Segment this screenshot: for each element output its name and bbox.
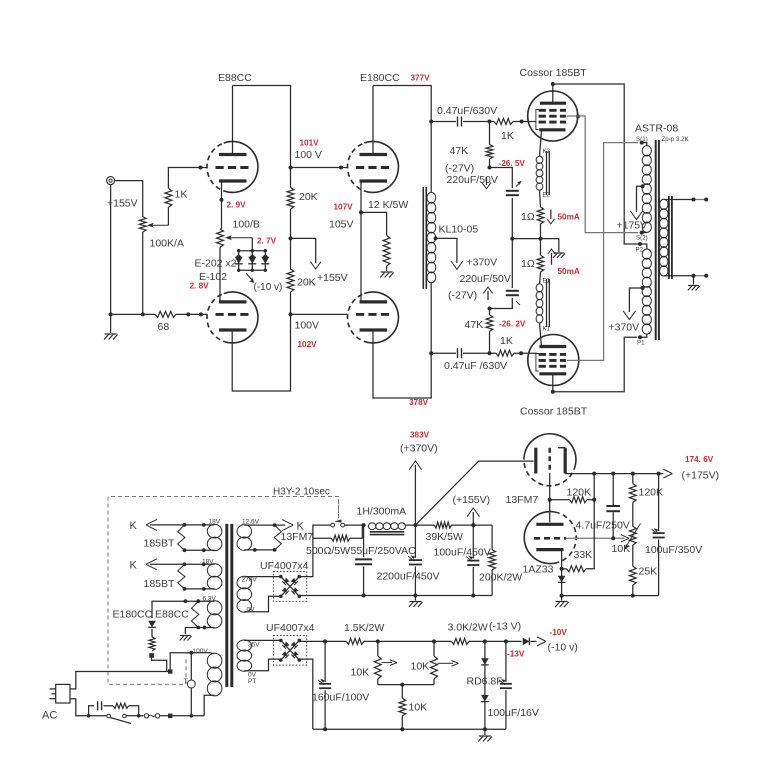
winding ASTR-08 primary upper — [642, 146, 651, 156]
node speaker + b — [704, 198, 708, 202]
pot1 wiper arrow — [382, 662, 393, 664]
arrowhead K heater 18V #2 — [146, 559, 157, 570]
grid rows V5 b — [539, 115, 566, 118]
node pot1 top — [376, 639, 380, 643]
grid rows V6 b — [539, 359, 566, 362]
wire V5 g2 to S2 (gray) — [567, 116, 638, 233]
winding heater 18V #1 — [207, 524, 222, 538]
svg-text:(-10 v): (-10 v) — [548, 642, 578, 654]
node rail 100uF350 — [657, 472, 661, 476]
wire AC live up to primary — [170, 653, 171, 670]
node zener rail bottom — [483, 727, 487, 731]
wire 120K-2 lead — [632, 474, 634, 484]
svg-text:107V: 107V — [334, 203, 354, 212]
bridge UF4007x4 B1 corner node — [279, 575, 283, 579]
bridge UF4007x4 B2 corner node — [298, 658, 302, 662]
resistor 33K — [567, 566, 587, 572]
wire T branch — [190, 653, 192, 716]
node heater 18V #2 b1 — [183, 587, 187, 591]
diode D3 E-202/E-102 — [261, 257, 269, 264]
bias bottom rail — [313, 728, 506, 730]
node snubber left — [87, 714, 91, 718]
node V1 plate / 20K top — [289, 166, 293, 170]
wire switch to fuse — [126, 715, 143, 717]
svg-text:12.6V: 12.6V — [242, 518, 260, 525]
psu right rail segment — [562, 595, 659, 597]
core K2 — [546, 151, 548, 195]
AC plug — [56, 684, 70, 703]
zener RD6.8F #2 — [481, 695, 489, 702]
node +370V tap — [641, 286, 645, 290]
node heater 18V #1 b1 — [183, 548, 187, 552]
node diode D1 bottom — [237, 269, 240, 272]
svg-text:500Ω/5W: 500Ω/5W — [306, 545, 350, 557]
svg-text:E2: E2 — [543, 193, 551, 199]
wire snubber branch — [89, 706, 94, 716]
wire V5 anode up — [552, 84, 554, 103]
node P1 terminal — [638, 335, 642, 339]
thermal fuse T circle — [187, 680, 195, 688]
wire pot2 leads — [433, 641, 435, 656]
resistor 47K lower — [486, 315, 493, 331]
wire relay to choke node — [345, 524, 364, 526]
annotation +370V arrow path — [629, 288, 642, 312]
relay armature — [334, 520, 342, 523]
wire 100uF16 branch — [505, 641, 507, 682]
twisted pair 6.3V — [192, 601, 199, 627]
node diode D2 bottom — [251, 269, 254, 272]
wire 220uF lower chain — [511, 239, 513, 288]
svg-text:PT: PT — [248, 678, 256, 685]
cathode V1 — [219, 179, 247, 182]
relay contact a — [331, 523, 335, 527]
anode V3 — [360, 153, 388, 156]
wire 220uF lower to 47K — [490, 298, 513, 309]
arrowhead K 12.6V — [282, 520, 293, 531]
wire pot bottom to ground bus — [142, 232, 144, 314]
wire 100uF450 branch — [472, 525, 474, 558]
svg-text:25K: 25K — [639, 566, 658, 578]
svg-text:10K: 10K — [409, 702, 428, 714]
wire fuse to primary — [160, 715, 205, 717]
wire tap +370V annotation — [436, 238, 457, 263]
ground 12K — [381, 271, 393, 273]
node V6 anode corner — [551, 390, 555, 394]
pot 10K #1 — [374, 656, 381, 679]
svg-text:RD6.8F: RD6.8F — [467, 676, 503, 688]
svg-text:377V: 377V — [411, 74, 431, 83]
annotation +175V arrowhead — [630, 211, 642, 220]
wire diode to arrow — [531, 640, 537, 642]
svg-text:35V: 35V — [248, 641, 260, 648]
wire V6 g2 to S1 (gray) — [567, 143, 638, 361]
node 6.3V t2 — [196, 599, 200, 603]
svg-text:-13V: -13V — [507, 650, 525, 659]
grid rows V5 a — [539, 109, 566, 112]
svg-text:20K: 20K — [299, 191, 318, 203]
wire V8 cathode down — [561, 550, 563, 596]
pots bottom bar — [378, 684, 434, 686]
bridge UF4007x4 B1 diagonal b — [281, 577, 300, 597]
grid V2 (dashed) — [216, 313, 250, 316]
grid V3 (dashed) — [356, 166, 390, 169]
node +155V psu — [471, 523, 475, 527]
wire 1.5K to 3K — [364, 640, 452, 642]
wire diode to resistor — [151, 629, 153, 637]
node 100V (V2 anode) — [289, 312, 293, 316]
bridge UF4007x4 B2 diode — [291, 642, 298, 649]
node S2 terminal — [640, 231, 644, 235]
wire anode V1 to top rail — [232, 86, 234, 155]
svg-text:174. 6V: 174. 6V — [685, 455, 714, 464]
wire 3K to diode — [469, 640, 522, 642]
bridge UF4007x4 B1 corner node — [298, 595, 302, 599]
node -27V upper — [488, 166, 492, 170]
wire choke to B+ node — [406, 524, 416, 526]
zener RD6.8F #1 — [481, 658, 489, 665]
wire wiper 100/B down to diode rail — [251, 238, 253, 251]
wire 47K lower leads — [489, 309, 491, 316]
annotation 50mA lower arrowhead — [548, 249, 555, 254]
node at V6 grid — [519, 351, 523, 355]
wire 55uF to 0V rail — [363, 567, 365, 596]
resistor 1.5K/2W — [346, 638, 364, 644]
input terminal J1 — [107, 177, 115, 185]
potentiometer 100K/A — [139, 217, 146, 232]
grid V1 (dashed) — [216, 166, 250, 169]
resistor 120K #2 — [629, 484, 636, 503]
svg-text:100V: 100V — [295, 320, 320, 332]
bridge UF4007x4 B2 corner node — [298, 639, 302, 643]
node 160uF rail — [323, 727, 327, 731]
tube V2 E88CC lower triode — [224, 292, 258, 343]
svg-text:1Ω: 1Ω — [521, 211, 535, 223]
wire rail ground stub 2 — [484, 729, 486, 735]
AC plug prong 1 — [50, 688, 56, 690]
svg-text:T: T — [184, 679, 189, 686]
wire diagonal B+ to 13FM7 — [415, 461, 533, 525]
wire right rail gnd stub — [561, 596, 563, 601]
svg-text:(-13 V): (-13 V) — [489, 621, 521, 633]
wire 68 to grid V2 — [176, 313, 207, 315]
wire 4.7uF to filament node — [612, 512, 614, 538]
tube V1 E88CC upper triode — [224, 141, 258, 192]
core power transformer — [225, 524, 228, 687]
svg-text:1Ω: 1Ω — [521, 258, 535, 270]
svg-text:1H/300mA: 1H/300mA — [357, 506, 407, 518]
svg-text:100uF/350V: 100uF/350V — [645, 544, 702, 556]
wire secondary bottom jumper (gray) — [694, 275, 707, 277]
tube V6 Cossor 185BT lower — [528, 335, 579, 386]
wire heater 18V #1 bottom lead — [185, 549, 215, 551]
bridge UF4007x4 B1 diode — [291, 578, 298, 585]
node cathode bus — [510, 237, 514, 241]
anode bar V2 (bottom) — [219, 328, 247, 331]
svg-text:12 K/5W: 12 K/5W — [368, 199, 408, 211]
wire 55uF cap branch — [363, 525, 365, 557]
wire 35V top lead — [244, 639, 280, 641]
annotation arrow tail -27V lower — [487, 291, 489, 300]
svg-text:100uF/16V: 100uF/16V — [488, 707, 539, 719]
wire V5 cathode down to K2 — [540, 131, 542, 157]
node 12.6V b2 — [253, 548, 257, 552]
node primary top — [189, 651, 193, 655]
node 55uF on rail — [362, 594, 366, 598]
wire V6 anode down to P1 — [553, 337, 637, 392]
wire 120K+33K to rail vertical — [586, 474, 594, 569]
choke 1H/300mA — [368, 523, 375, 530]
winding ASTR-08 primary lower — [642, 249, 651, 259]
node V3 cathode / 12K — [359, 210, 363, 214]
wire 100V node to V4 grid — [291, 313, 348, 315]
capacitor 0.47uF/630V lower — [457, 348, 459, 358]
node 6.3V b2 — [196, 626, 200, 630]
wire V5 anode to P2 — [553, 84, 640, 244]
tube V7 13FM7 — [524, 434, 576, 465]
wire P2 to winding — [640, 244, 647, 249]
resistor snubber — [113, 703, 129, 708]
svg-text:Cossor 185BT: Cossor 185BT — [520, 67, 588, 79]
winding primary 100V — [207, 653, 222, 668]
bridge UF4007x4 B1 diagonal a — [281, 577, 300, 597]
wire primary bottom lead — [204, 695, 214, 716]
resistor 68 grid stopper — [155, 311, 176, 317]
svg-text:K: K — [130, 520, 138, 532]
node rail 120K-2 — [631, 472, 635, 476]
zener V8 cathode — [558, 576, 566, 583]
wire S2 to winding — [642, 232, 647, 234]
fuse F1 — [144, 714, 148, 718]
wire V7 grid down — [549, 474, 551, 523]
wiper arrow 100K/A — [151, 224, 168, 226]
winding ASTR-08 secondary — [660, 199, 668, 209]
bridge UF4007x4 B1 box (dotted) — [273, 572, 306, 602]
svg-text:1.5K/2W: 1.5K/2W — [344, 622, 384, 634]
wire K1 to V6 cathode — [540, 272, 541, 284]
resistor 10K #3 — [399, 698, 406, 716]
potentiometer 100/B — [217, 229, 224, 248]
beam bracket V5 — [536, 110, 539, 130]
node input ground bus — [109, 312, 113, 316]
svg-text:S(2): S(2) — [636, 235, 648, 242]
node 10K3 rail — [400, 727, 404, 731]
svg-text:(+370V): (+370V) — [400, 443, 438, 455]
wire V2 anode to 100V node — [232, 314, 290, 391]
svg-text:2. 7V: 2. 7V — [257, 237, 277, 246]
wire V3 anode up — [372, 86, 374, 155]
grid rows V6 c — [539, 365, 566, 368]
annotation arrow -27V lower — [483, 287, 492, 293]
wire rail ground stub — [414, 596, 416, 601]
ground bias rail — [479, 735, 491, 737]
bridge UF4007x4 B1 corner node — [279, 595, 283, 599]
node grid V2 b — [199, 312, 203, 316]
bridge UF4007x4 B2 box (dotted) — [273, 635, 306, 665]
node heater 18V #1 t1 — [183, 523, 187, 527]
capacitor 100uF/450V — [467, 560, 479, 562]
wire 120K-1 left lead — [550, 499, 570, 501]
wire 12.6V bottom lead — [244, 549, 274, 551]
twisted pair heater 18V #2 — [178, 564, 185, 589]
relay contact b — [341, 523, 345, 527]
node 100uF450 rail — [471, 594, 475, 598]
wire V1 cathode chain to V2 top — [219, 247, 221, 302]
wire 120K-1 to rail — [587, 499, 594, 501]
node T bottom — [190, 714, 194, 718]
svg-text:(-27V): (-27V) — [445, 163, 474, 175]
node diode D1 top — [237, 249, 240, 252]
resistor 500R/5W — [331, 535, 350, 541]
wire 6.3V top lead — [152, 601, 215, 618]
resistor 1R upper — [537, 207, 543, 224]
polar mark 220uF lower — [516, 301, 520, 305]
diode D2 E-202/E-102 — [248, 257, 256, 264]
node 120K right — [592, 498, 596, 502]
svg-text:13FM7: 13FM7 — [506, 494, 539, 506]
svg-text:50mA: 50mA — [558, 267, 580, 276]
wire 500R to rail — [350, 525, 362, 538]
capacitor 55uF/250VAC — [355, 558, 372, 560]
ground main rail — [409, 601, 421, 603]
node V5 g2 at envelope — [576, 114, 580, 118]
node diode D3 top — [264, 249, 267, 252]
wire V7 plate to +175 rail — [565, 473, 658, 475]
svg-text:K1: K1 — [543, 327, 551, 333]
svg-text:47K: 47K — [465, 319, 484, 331]
svg-text:10K: 10K — [411, 661, 430, 673]
capacitor 100uF/16V — [500, 683, 512, 685]
node 1ohm midpoint — [539, 237, 543, 241]
wire V8 filament right (gray) — [566, 537, 625, 539]
wire +155V annotation feed — [291, 238, 316, 263]
node grid V2 a — [186, 312, 190, 316]
winding K2 — [536, 156, 543, 163]
cathode V3 — [360, 179, 388, 182]
annotation arrow -10V — [246, 273, 253, 281]
wire cap to 1K lower — [463, 352, 496, 354]
wire node to V3 grid — [291, 167, 348, 169]
cathode bar V6 (top) — [539, 345, 566, 348]
svg-text:100/B: 100/B — [233, 219, 260, 231]
main 0V rail — [299, 595, 492, 597]
capacitor 100uF/350V — [653, 532, 665, 534]
annotation 50mA upper tail — [550, 209, 552, 219]
wire 270V bottom lead — [244, 596, 280, 612]
svg-text:1K: 1K — [175, 189, 188, 201]
node P2 terminal — [638, 242, 642, 246]
node cathode rail — [560, 594, 564, 598]
node B+ 383V — [413, 523, 417, 527]
resistor heater bias — [149, 637, 155, 651]
svg-text:Cossor 185BT: Cossor 185BT — [520, 406, 588, 418]
svg-text:Zp-p 3.2K: Zp-p 3.2K — [662, 136, 690, 143]
svg-text:E88CC: E88CC — [155, 609, 189, 621]
wire heater 18V #2 bottom lead — [185, 588, 215, 590]
capacitor 160uF/100V — [319, 683, 331, 685]
svg-text:2. 8V: 2. 8V — [190, 282, 210, 291]
svg-text:S(1): S(1) — [636, 136, 648, 143]
trimmer 10K — [629, 526, 636, 545]
wire 200K to rail — [491, 570, 493, 596]
node speaker + a — [692, 198, 696, 202]
wire 1K to grid V1 — [168, 168, 207, 189]
capacitor 2200uF/450V — [409, 559, 422, 561]
wire pot1 leads — [377, 641, 379, 656]
svg-text:100uF/450V: 100uF/450V — [434, 547, 491, 559]
svg-text:+370V: +370V — [467, 257, 498, 269]
svg-text:47K: 47K — [450, 145, 469, 157]
node choke input / 55uF — [362, 523, 366, 527]
wire 1K to tube V6 grid — [514, 352, 537, 354]
wire to bottom cap — [431, 352, 456, 354]
anode bar V7 (vertical) — [564, 448, 567, 474]
annotation arrowhead +155V psu — [467, 508, 479, 517]
diode block top rail — [239, 250, 266, 252]
ground secondary — [688, 285, 699, 287]
cathode bar V2 (top) — [219, 300, 247, 303]
wire wiper up to 1K — [167, 207, 169, 225]
bridge UF4007x4 B2 diode — [282, 651, 289, 658]
beam bracket V6 — [536, 354, 539, 372]
switch SW contacts — [107, 714, 111, 718]
dashed enclosure heater box — [108, 497, 339, 685]
wire cathode bus to 1ohm mid and ground — [512, 239, 559, 252]
svg-text:1AZ33: 1AZ33 — [523, 564, 554, 576]
grid V7 (vertical dashed) — [549, 448, 551, 474]
node heater 18V #2 t1 — [183, 562, 187, 566]
annotation +175V arrow path — [637, 186, 643, 212]
wire 220uF to 0V node — [511, 198, 513, 239]
node cathode / 33K — [560, 567, 564, 571]
wire secondary ground stub — [693, 276, 695, 285]
annotation +155V psu arrow tail — [472, 512, 474, 525]
svg-text:ASTR-08: ASTR-08 — [635, 123, 678, 135]
wire 47K lower to grid node — [489, 331, 491, 353]
tube V3 E180CC upper — [364, 141, 398, 192]
wire zeners branch — [484, 641, 486, 729]
node KL10-05 center tap — [434, 236, 438, 240]
resistor 200K/2W — [489, 550, 496, 570]
node 20K midpoint +155V — [289, 236, 293, 240]
svg-text:185BT: 185BT — [144, 578, 176, 590]
resistor 25K — [629, 566, 636, 585]
anode bar V6 (bottom) — [539, 372, 566, 375]
wire to top cap — [431, 121, 456, 123]
svg-text:39K/5W: 39K/5W — [426, 531, 463, 543]
svg-text:33K: 33K — [574, 549, 593, 561]
svg-text:2. 9V: 2. 9V — [227, 201, 247, 210]
resistor 47K upper — [486, 144, 493, 159]
node 377V junction — [429, 120, 433, 124]
node +175V tap — [641, 184, 645, 188]
bridge UF4007x4 B2 corner node — [279, 639, 283, 643]
svg-text:68: 68 — [158, 321, 170, 333]
switch SW lever — [110, 718, 131, 724]
svg-text:P1: P1 — [637, 340, 645, 347]
wire cathode V1 down — [221, 181, 223, 229]
wire V3 cathode down — [360, 181, 362, 302]
node speaker - b — [704, 274, 708, 278]
resistor 1K lower Cossor grid — [496, 350, 514, 356]
wire 10K3 to rail — [401, 716, 403, 729]
wire K2 to 1ohm — [540, 190, 541, 207]
wire AC live — [70, 672, 168, 689]
node grid upper Cossor — [488, 120, 492, 124]
svg-text:13FM7: 13FM7 — [281, 531, 314, 543]
wire 500R bypass — [313, 537, 332, 539]
svg-text:378V: 378V — [409, 398, 429, 407]
resistor 1K grid V1 — [165, 188, 172, 207]
